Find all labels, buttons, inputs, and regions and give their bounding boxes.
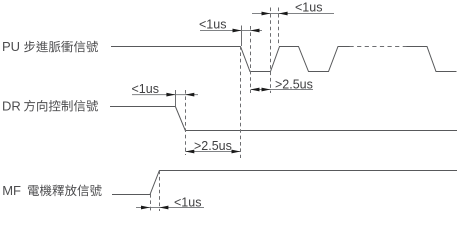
wire PU high segment 1 <box>111 47 350 72</box>
svg-text:<1us: <1us <box>199 18 226 32</box>
dimension PU rise time <1us <box>252 1 334 16</box>
dimension MF rise time <1us <box>136 196 204 210</box>
wire PU high segment 2 <box>407 47 457 72</box>
svg-text:DR: DR <box>2 98 21 113</box>
svg-text:>2.5us: >2.5us <box>194 139 232 153</box>
svg-text:MF: MF <box>2 183 21 198</box>
dimension DR fall time <1us <box>132 82 199 97</box>
wire PU dashed high segment <box>350 46 407 48</box>
dimension PU fall time <1us <box>199 18 262 33</box>
leader line DR fall start <box>175 90 177 106</box>
svg-text:PU: PU <box>2 39 20 54</box>
extension dashed line DR fall bottom <box>185 90 187 155</box>
extension dashed line PU rise bottom <box>270 8 272 94</box>
dimension PU low width >2.5us <box>251 78 314 92</box>
label PU (step pulse signal) <box>2 39 98 54</box>
svg-text:<1us: <1us <box>295 1 322 15</box>
leader line PU fall start <box>241 26 243 47</box>
wire DR waveform <box>110 107 457 131</box>
label MF (motor free signal) <box>2 183 101 198</box>
extension dashed line MF rise top <box>159 171 161 212</box>
svg-text:<1us: <1us <box>132 82 159 96</box>
label DR (direction control signal) <box>2 98 98 113</box>
extension dashed line PU first fall start (long) <box>240 46 242 158</box>
wire MF waveform <box>112 171 457 195</box>
extension dashed line PU rise top <box>278 8 280 47</box>
extension dashed line MF rise start <box>150 194 152 211</box>
dimension DR setup >2.5us <box>185 139 240 154</box>
extension dashed line PU fall bottom <box>250 26 252 93</box>
